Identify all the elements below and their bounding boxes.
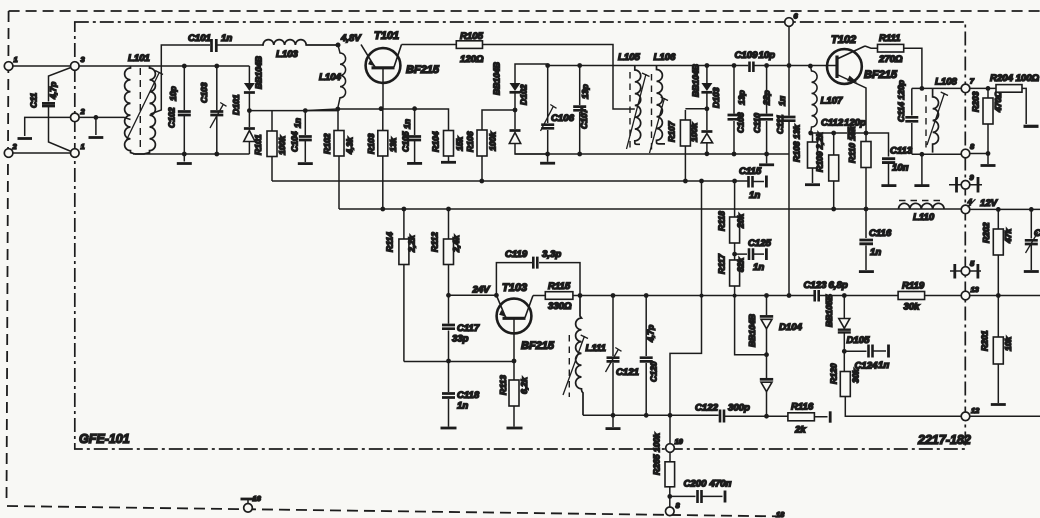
svg-text:4: 4 [967,197,973,206]
ground below C116 [859,270,874,273]
svg-text:C110: C110 [752,113,762,133]
svg-text:R116: R116 [791,402,814,413]
ground below C118 [441,427,457,430]
bias bus y108 R102 to R104 [305,106,448,130]
svg-text:300p: 300p [728,403,750,414]
svg-text:L104: L104 [319,72,342,83]
svg-text:R115: R115 [548,281,571,292]
L105 core dashed [629,72,631,148]
varactor diode D102 lower [492,62,548,154]
svg-text:R265 100k: R265 100k [652,432,662,475]
svg-text:R105: R105 [460,31,484,42]
svg-text:2,4k: 2,4k [451,234,461,253]
L108 core dashed [925,95,927,150]
ground below C113 [881,184,896,187]
resistor R111 270ohm [865,33,922,88]
capacitor C119 3.3p bypass [496,249,580,296]
transformer L101 primary [125,66,135,154]
inductor L106 [654,52,677,144]
capacitor C125 1n to contact [732,238,771,273]
wire T101 collector to R105 [402,44,457,46]
svg-text:R102: R102 [322,133,332,154]
resistor R120 30k [829,351,962,416]
svg-text:1n: 1n [753,262,764,273]
svg-text:C101: C101 [188,33,211,44]
ground left of L101 [18,137,33,140]
svg-text:10: 10 [675,437,684,446]
svg-text:C123: C123 [804,280,828,291]
svg-text:20k: 20k [736,212,746,229]
capacitor C102 10p [167,64,191,154]
svg-text:4,8V: 4,8V [340,33,362,44]
svg-text:13p: 13p [737,90,747,105]
terminal 16 [241,494,262,512]
terminal 2 outer [4,142,17,157]
resistor R113 6.2k [498,361,529,427]
svg-text:2217-182: 2217-182 [917,433,971,447]
svg-text:GFE-101: GFE-101 [79,432,130,446]
capacitor C109 10p in series [735,50,776,72]
resistor R203 470ohm [971,86,1004,164]
svg-text:R113: R113 [498,375,508,395]
svg-text:T102: T102 [831,34,856,46]
capacitor C114 120p [896,80,918,154]
T103 emitter rail y361 [404,359,517,364]
svg-text:1n: 1n [402,119,412,129]
wire terminal 2 grounds [25,115,131,136]
svg-text:D103: D103 [711,87,721,108]
terminal 13 [961,285,979,300]
svg-text:C105: C105 [401,131,411,152]
svg-text:D102: D102 [519,84,529,105]
capacitor C115 1n to contact [739,166,766,201]
terminal 8 [961,142,975,158]
capacitor C117 33p [442,295,480,361]
svg-text:L106: L106 [654,52,677,63]
svg-text:R201: R201 [980,330,990,351]
svg-text:1n: 1n [870,247,881,258]
wire R105 to L105 tap [483,45,635,110]
resistor R110 15k [847,125,871,209]
ground below C105 [407,162,422,165]
L106 tuning arrow [650,97,669,153]
ground below R104 [441,161,456,164]
wire antenna bus y66 from terminal 1 to D101 [9,65,250,67]
terminal 9 [949,173,982,193]
terminal 1 inner [71,142,85,157]
svg-text:2: 2 [80,107,86,116]
svg-text:C113: C113 [890,146,913,157]
svg-text:33p: 33p [452,334,469,345]
capacitor C120 4.7p [640,296,659,416]
ground below C110 [759,163,774,166]
wire L101 bottom rail y154 [133,152,249,162]
svg-text:C122: C122 [695,403,719,414]
ground below R201 [991,403,1006,406]
varactor diode D102 BB104B upper [510,64,548,112]
label L101 [128,53,150,64]
svg-text:4,7p: 4,7p [646,325,656,343]
resistor R115 330ohm [533,281,580,312]
svg-text:D105: D105 [847,335,871,346]
L111 core dashed [568,335,570,397]
svg-text:16: 16 [253,494,262,503]
diode D105 BB105B [824,294,870,354]
emitter bias wire y133 [808,131,888,157]
svg-text:100k: 100k [488,131,498,151]
ground below R113 [507,427,523,430]
svg-text:C: C [1034,228,1040,239]
svg-text:T103: T103 [502,282,527,294]
svg-text:6,8p: 6,8p [829,280,848,291]
svg-text:10p: 10p [168,86,178,101]
svg-text:C117: C117 [457,323,480,334]
svg-text:6,2k: 6,2k [519,376,529,394]
resistor R265 100k [652,432,675,507]
svg-text:1: 1 [81,142,85,151]
resistor R104 15k [431,131,465,162]
svg-text:3: 3 [81,55,86,64]
svg-text:47k: 47k [1003,227,1013,244]
terminal 2 inner [71,107,86,122]
svg-text:100k: 100k [689,122,699,142]
label 2217-182 [917,433,971,447]
inner module frame GFE-101 [75,22,966,449]
svg-text:R106: R106 [465,131,475,152]
svg-text:12: 12 [971,406,980,415]
svg-text:R202: R202 [981,222,991,243]
svg-text:L108: L108 [935,77,958,88]
capacitor C116 1n [859,209,891,270]
svg-text:R114: R114 [385,232,395,252]
svg-text:470Ω: 470Ω [993,91,1003,113]
svg-text:5: 5 [970,259,975,268]
resistor R106 100k [465,110,515,181]
trimmer capacitor C103 [199,64,227,154]
resistor R119 30k [898,281,925,313]
svg-text:R112: R112 [430,232,440,252]
svg-text:C116: C116 [869,228,892,239]
svg-text:82k: 82k [736,256,746,272]
wire D101 junction to R101 and bias bus y110 [249,111,337,131]
svg-text:13k: 13k [388,136,398,152]
varactor diode D103 BB104B upper [685,66,712,112]
svg-text:R104: R104 [431,131,441,152]
svg-text:2k: 2k [794,425,806,436]
varactor diode D101 lower [231,56,264,154]
svg-text:R109 2,2k: R109 2,2k [815,131,825,172]
svg-text:8: 8 [676,501,681,510]
L105 tuning arrow [627,73,650,149]
svg-text:4,3k: 4,3k [345,136,355,155]
capacitor C118 1n [442,359,480,427]
svg-text:BB104B: BB104B [747,314,757,347]
detector line vertical x701.5 [670,181,704,444]
IF bus y65.5 from C106 to T102 base [545,63,837,68]
capacitor C111 1n in terminal6 line [775,66,796,296]
svg-text:C114 120p: C114 120p [896,80,906,122]
svg-text:9: 9 [970,173,975,182]
svg-text:120Ω: 120Ω [460,54,484,65]
wire terminal 2 outer to terminal 1 inner y153 [9,152,75,154]
ground below C104 [298,162,313,165]
terminal 8 bottom [666,501,681,516]
terminal 6 [785,12,799,66]
resistor R105 120ohm [456,31,484,65]
svg-text:22p: 22p [762,90,772,106]
24V node wire to T103 [446,285,499,298]
svg-text:C111: C111 [775,115,785,134]
IF tank bottom rail y154 [515,153,662,155]
resistor R202 47k [981,209,1013,295]
svg-text:R111: R111 [879,33,901,44]
L111 tuning arrow [563,335,588,395]
varactor diode D103 lower [691,64,722,154]
outer dashed frame top [9,10,1040,12]
svg-text:C108: C108 [736,112,746,133]
inductor L103 [262,40,338,60]
svg-text:30k: 30k [904,302,921,313]
svg-text:13: 13 [971,285,980,294]
svg-text:12V: 12V [980,198,999,209]
L106 core dashed [651,74,653,152]
svg-text:BF215: BF215 [406,64,440,76]
svg-text:L110: L110 [913,212,935,223]
svg-text:100k: 100k [277,135,287,155]
ground below R108 [805,183,820,186]
trimmer capacitor C106 [541,66,575,162]
capacitor C124 1n to contact [844,345,889,372]
svg-text:BB104B: BB104B [254,56,264,89]
svg-text:L107: L107 [821,96,844,107]
svg-text:1п: 1п [878,360,889,371]
svg-text:1: 1 [14,55,18,64]
tank bottom wire to terminal 8 [912,152,988,185]
svg-text:4,7p: 4,7p [48,82,58,100]
resistor R201 10k [980,296,1014,404]
capacitor C105 1n [401,109,422,162]
svg-text:D101: D101 [231,94,241,115]
inductor L111 [576,296,606,416]
svg-text:R120: R120 [829,363,839,384]
capacitor C113 10n [882,146,913,185]
capacitor C11 4.7p between terminals 3 and 1 [29,66,75,153]
terminal 12 [961,406,1040,421]
svg-text:BF215: BF215 [864,69,898,81]
svg-text:L101: L101 [128,53,150,64]
L101 tuning arrow [126,71,163,142]
svg-text:C109: C109 [735,50,759,61]
svg-text:C200: C200 [684,479,708,490]
ground below C102 rail [177,162,192,165]
svg-text:10p: 10p [759,50,776,61]
resistor R114 2.2k [385,209,417,362]
svg-text:BB104B: BB104B [492,62,502,95]
terminal 10 [666,437,684,452]
svg-text:L105: L105 [618,52,641,63]
inductor L105 [618,52,641,144]
tank bottom rail y415 [583,413,672,427]
label GFE-101 [79,432,130,446]
svg-text:C118: C118 [457,390,480,401]
capacitor C108 13p [728,66,747,155]
capacitor C110 22p [752,66,773,164]
svg-text:330Ω: 330Ω [548,301,572,312]
ground below C106 [540,162,555,165]
svg-text:C119: C119 [505,249,528,260]
svg-text:R103: R103 [366,133,376,154]
svg-text:C11: C11 [29,93,39,108]
svg-text:R117: R117 [717,253,727,274]
resistor R107 100k [667,110,700,181]
svg-text:24V: 24V [472,285,492,296]
output wire y295.5 [578,293,1040,298]
resistor R108 13k [792,124,818,183]
svg-text:7: 7 [970,77,975,86]
inductor L104 [319,45,346,107]
ground right of terminal 2 [89,136,104,139]
terminal 7 [961,77,975,93]
resistor R102 4.3k [322,109,355,209]
trimmer capacitor C121 [606,296,639,416]
capacitor C112 120p [821,118,866,140]
svg-text:D104: D104 [779,322,803,333]
transformer L101 secondary [135,66,155,154]
node 4.8V junction [336,33,363,48]
svg-text:C104: C104 [290,131,300,152]
resistor R117 82k [717,253,767,355]
svg-text:R119: R119 [902,281,925,292]
svg-text:30k: 30k [851,367,861,383]
svg-text:C120: C120 [649,361,659,382]
svg-text:1n: 1n [221,33,232,44]
varactor diode D104 BB104B upper [760,296,773,358]
svg-text:C102: C102 [167,107,177,128]
tank C114 L108 top wire [912,86,961,91]
svg-text:R101: R101 [253,134,263,155]
resistor R204 100ohm [970,73,1040,124]
varactor diode D104 lower [747,314,803,416]
svg-text:C103: C103 [199,82,209,103]
transistor T101 BF215 [361,30,440,109]
ground below R203 [981,164,996,167]
inductor L108 [933,77,958,153]
svg-text:18: 18 [776,510,785,518]
svg-text:8: 8 [970,142,975,151]
trimmer capacitor right edge [1025,209,1040,270]
L108 tuning arrow [927,92,948,145]
resistor R103 13k [366,109,398,209]
svg-text:R118: R118 [717,211,727,231]
svg-text:1п: 1п [777,95,787,106]
svg-text:R108 13k: R108 13k [792,124,802,162]
resistor R109 2.2k [815,131,839,209]
svg-text:3,3p: 3,3p [542,249,561,260]
ground after R204 [1024,125,1039,128]
outer dashed frame bottom [7,506,788,517]
svg-text:C121: C121 [616,367,639,378]
resistor R118 20k [717,181,746,243]
ground below tank [914,184,929,187]
svg-text:BB104B: BB104B [691,64,701,97]
terminal 5 [950,259,981,279]
svg-text:BF215: BF215 [521,340,555,352]
wire L101 secondary tap to C101 [151,45,211,114]
transistor T103 BF215 [496,282,554,361]
svg-text:2: 2 [12,142,18,151]
terminal 1 outer [4,55,17,70]
capacitor C123 6.8p [804,280,848,302]
svg-text:L103: L103 [276,49,299,60]
terminal 4 12V [961,197,998,214]
svg-text:270Ω: 270Ω [878,54,903,65]
terminal 3 inner [71,55,86,70]
svg-text:2,2k: 2,2k [407,234,417,253]
svg-text:R107: R107 [667,120,677,142]
resistor R112 2.4k [430,209,462,295]
capacitor C107 13p [573,66,590,157]
svg-text:R110 15k: R110 15k [847,125,857,163]
inductor L110 with core [899,201,945,224]
ground below C121 [606,427,621,430]
transformer L101 core [139,68,141,150]
svg-text:L111: L111 [586,343,606,354]
ground below right edge cap [1024,270,1039,273]
svg-text:BB105Б: BB105Б [824,294,834,327]
capacitor C101 1n [188,33,262,52]
svg-text:C115: C115 [739,166,762,177]
svg-text:R203: R203 [971,91,981,112]
wire IF tank rail right y154 [662,151,789,156]
svg-text:10п: 10п [892,163,909,174]
svg-text:1n: 1n [749,190,760,201]
outer dashed frame left [7,11,9,504]
svg-text:10k: 10k [1003,335,1013,351]
svg-text:C112: C112 [821,118,844,129]
svg-text:C107: C107 [579,107,589,129]
svg-text:T101: T101 [374,30,399,42]
svg-text:15k: 15k [455,135,465,151]
varactor diode D101 BB104B upper [244,66,255,111]
capacitor C104 1n [290,108,312,162]
AGC wire y181 [272,179,748,184]
resistor R101 100k [253,131,287,181]
resistor R116 2k to contact [767,402,831,436]
svg-text:R204 100Ω: R204 100Ω [990,73,1040,84]
svg-text:6: 6 [794,12,799,21]
svg-text:C125: C125 [748,238,772,249]
12V rail y209 [339,207,1040,212]
inductor L107 [810,66,843,133]
transistor T102 BF215 [827,34,898,133]
svg-text:1n: 1n [293,118,303,128]
svg-text:13p: 13p [580,84,590,99]
capacitor C200 470n to contact [670,479,732,504]
svg-text:1n: 1n [457,401,468,412]
svg-text:C106: C106 [551,113,575,124]
capacitor C122 300p [670,403,769,423]
label 18 bottom edge [776,510,785,518]
svg-text:470п: 470п [709,479,732,490]
